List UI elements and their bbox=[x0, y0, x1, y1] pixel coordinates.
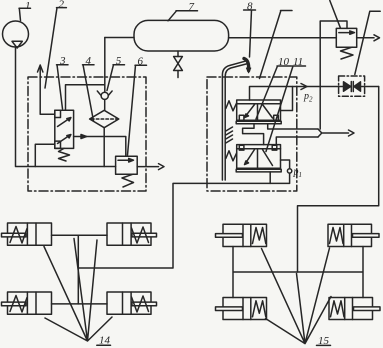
wire limiter outlet arrow bbox=[357, 37, 374, 39]
label 12 leader bbox=[330, 1, 341, 29]
label 8 bbox=[244, 0, 256, 57]
rear brake chamber 15 top-left bbox=[216, 224, 267, 246]
wire filter down to rail bbox=[103, 128, 105, 167]
wire reservoir drop to regulator top bbox=[66, 85, 105, 110]
front brake chamber 14 top-left bbox=[2, 223, 52, 245]
rear brake chamber 15 top-right bbox=[328, 224, 379, 246]
wire supply drop from reservoir line bbox=[319, 38, 321, 129]
dash-dot enclosure (brake valve 9) bbox=[207, 77, 297, 191]
node P1 (port circle) bbox=[281, 160, 290, 169]
label 5 bbox=[107, 55, 125, 91]
wire front group cross link bbox=[77, 235, 79, 304]
front brake chamber 14 top-right bbox=[107, 223, 157, 245]
label 1 bbox=[19, 0, 31, 21]
wire rear group stubs and manifold bbox=[233, 247, 363, 298]
pressure regulator R3 bbox=[55, 110, 74, 161]
brake pedal 8 (double line lever) bbox=[222, 59, 250, 181]
label 3 bbox=[57, 55, 69, 109]
lower brake-valve section 11 bbox=[236, 145, 281, 172]
filter C5 (diamond 4) bbox=[90, 110, 119, 127]
wire merge and outlet arrow bbox=[318, 129, 349, 137]
label 13 leader bbox=[355, 11, 380, 74]
wire follow-up loop upper bbox=[281, 87, 293, 111]
dash-dot enclosure 2 (left apparatus group) bbox=[28, 77, 146, 191]
wire rear feed down right edge bbox=[298, 87, 379, 273]
vent line with arrow bbox=[40, 68, 55, 115]
label 7 bbox=[168, 1, 198, 21]
air reservoir 7 bbox=[134, 20, 229, 51]
svg-text:1: 1 bbox=[25, 0, 31, 12]
brake valve 6 (box with arrow and spring) bbox=[116, 156, 138, 187]
wire reservoir left bbox=[105, 37, 134, 39]
arrow on P2 line bbox=[301, 84, 307, 90]
compressor U1 (circle 1) bbox=[3, 21, 29, 47]
wire P1 to front brake chambers bbox=[78, 173, 289, 268]
label 11 bbox=[266, 56, 306, 152]
safety valve 5 (circle on V seat) bbox=[97, 38, 112, 111]
upper brake-valve section 10 bbox=[236, 100, 281, 124]
rear brake chamber 15 bottom-left bbox=[216, 298, 267, 320]
wire P2 line from upper section bbox=[250, 87, 344, 101]
wire supply inlet A (upper) bbox=[268, 124, 318, 129]
wire rail to regulator inlet bbox=[35, 144, 55, 166]
wire regulator output bbox=[74, 136, 105, 138]
pressure limiter 12 bbox=[320, 21, 356, 59]
label 6 bbox=[128, 56, 147, 156]
shutoff cock 13 bbox=[339, 76, 379, 96]
rear brake chamber 15 bottom-right bbox=[329, 298, 380, 320]
wire junction to valve 6 top bbox=[104, 137, 126, 157]
spring pedal to upper section bbox=[226, 101, 237, 111]
pedal pivot hatching bbox=[226, 127, 233, 143]
wire reservoir right bbox=[229, 37, 337, 39]
label 15 with leaders bbox=[262, 248, 332, 347]
wire supply inlet B (lower) bbox=[276, 137, 318, 145]
wire inter-section link bbox=[243, 124, 264, 145]
svg-text:2: 2 bbox=[309, 96, 313, 104]
drain cock under reservoir bbox=[174, 51, 183, 78]
label 4 bbox=[83, 55, 95, 121]
wire valve6 output arrow bbox=[137, 166, 158, 168]
label 9 leader bbox=[260, 11, 293, 79]
label 2 bbox=[45, 0, 66, 88]
front brake chamber 14 bottom-left bbox=[2, 292, 52, 314]
label 10 bbox=[256, 56, 292, 119]
svg-text:1: 1 bbox=[299, 171, 303, 179]
wire bottom pair link bbox=[52, 303, 108, 305]
label 14 with leaders bbox=[44, 239, 112, 347]
front brake chamber 14 bottom-right bbox=[107, 292, 157, 314]
wire top pair link bbox=[52, 234, 108, 236]
wire compressor to rail bbox=[16, 47, 116, 167]
spring pedal to lower section bbox=[226, 151, 237, 161]
svg-text:2: 2 bbox=[59, 0, 65, 11]
